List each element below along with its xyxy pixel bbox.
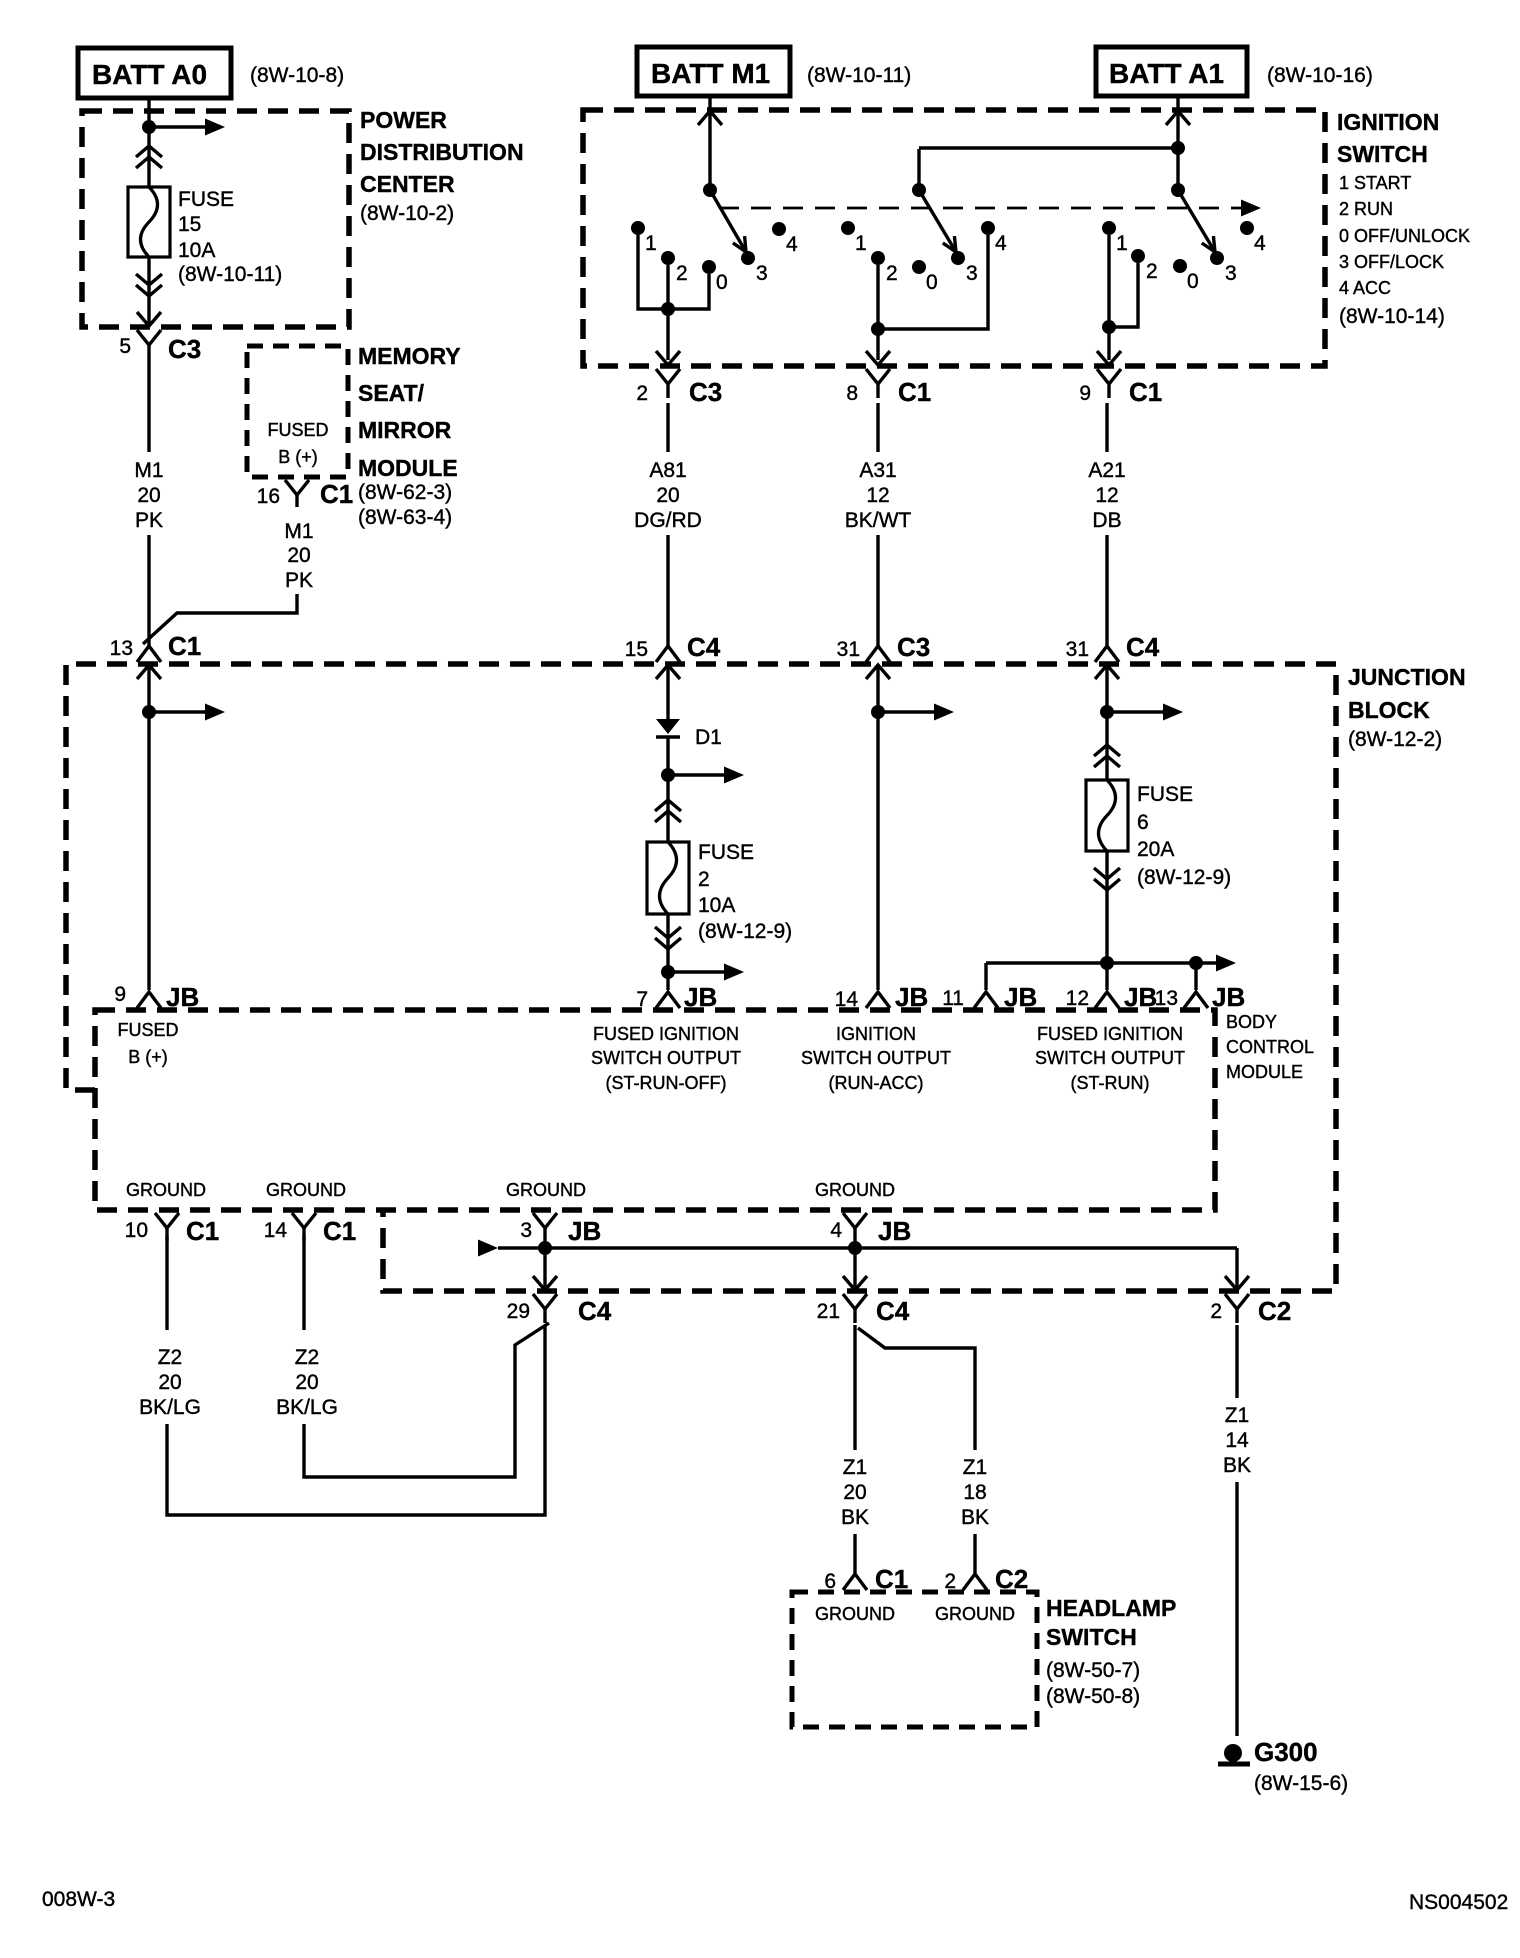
fuse 6 output marker xyxy=(1094,868,1120,890)
fuse 6 20A xyxy=(1086,780,1128,851)
bus feed arrow xyxy=(1196,955,1236,972)
connector pin 31 C4 xyxy=(1066,632,1160,662)
svg-text:FUSED IGNITION: FUSED IGNITION xyxy=(1037,1024,1183,1044)
contact 2 (switch M1) xyxy=(661,251,688,285)
svg-text:16: 16 xyxy=(257,485,280,508)
junction block box xyxy=(66,664,1336,1291)
svg-text:9: 9 xyxy=(1079,382,1091,405)
arrow into pin 8 C1 xyxy=(866,351,890,365)
arrow into pin 21 xyxy=(843,1276,867,1290)
arrow below pin 15 xyxy=(656,665,680,679)
wire pin 31 C3 to pin 14 xyxy=(876,666,879,990)
wire Z2 pin14 to pin 29 xyxy=(304,1323,549,1477)
svg-text:MODULE: MODULE xyxy=(1226,1062,1303,1082)
svg-text:GROUND: GROUND xyxy=(935,1604,1015,1624)
svg-text:A81: A81 xyxy=(649,459,686,482)
svg-text:GROUND: GROUND xyxy=(506,1180,586,1200)
wire A31 upper segment xyxy=(876,403,879,452)
svg-text:0: 0 xyxy=(926,271,938,294)
wire Z1 from pin 21 xyxy=(853,1325,856,1450)
svg-text:JB: JB xyxy=(1124,982,1157,1012)
svg-text:(ST-RUN): (ST-RUN) xyxy=(1071,1073,1150,1093)
svg-text:(8W-12-9): (8W-12-9) xyxy=(1137,866,1231,889)
svg-text:BK/LG: BK/LG xyxy=(276,1396,338,1419)
headlamp switch box xyxy=(792,1592,1037,1727)
svg-text:NS004502: NS004502 xyxy=(1409,1891,1508,1914)
svg-text:0: 0 xyxy=(1187,270,1199,293)
svg-text:C3: C3 xyxy=(897,632,930,662)
junction ground bus (pin 4) xyxy=(848,1241,862,1255)
diode D1 xyxy=(656,719,722,749)
connector pin 29 C4 xyxy=(507,1294,612,1326)
svg-text:D1: D1 xyxy=(695,726,722,749)
wire label Z1 20 BK xyxy=(841,1456,869,1529)
arrow into pin 2 C3 xyxy=(656,351,680,365)
switch wiper M1 xyxy=(710,190,746,252)
wire BATT A0 to fuse 15 xyxy=(147,98,150,187)
svg-text:8: 8 xyxy=(846,382,858,405)
wire bus down at C2 xyxy=(1235,1248,1238,1289)
svg-text:(8W-10-16): (8W-10-16) xyxy=(1267,64,1373,87)
svg-text:11: 11 xyxy=(942,987,964,1010)
svg-text:3: 3 xyxy=(520,1219,532,1242)
svg-text:DISTRIBUTION: DISTRIBUTION xyxy=(360,139,524,165)
signal label GROUND (pin 3) xyxy=(506,1180,586,1200)
svg-text:Z1: Z1 xyxy=(1225,1404,1250,1427)
svg-text:(8W-50-7): (8W-50-7) xyxy=(1046,1659,1140,1682)
svg-text:HEADLAMP: HEADLAMP xyxy=(1046,1595,1176,1621)
contact 1 (switch M1) xyxy=(631,221,657,255)
svg-text:FUSE: FUSE xyxy=(698,841,754,864)
wire contact0 to output (M1) xyxy=(668,274,709,309)
svg-text:31: 31 xyxy=(837,638,860,661)
svg-text:4: 4 xyxy=(1254,232,1266,255)
arrow into pin 9 C1 xyxy=(1097,351,1121,365)
svg-text:15: 15 xyxy=(178,213,201,236)
wire label M1 20 PK xyxy=(134,459,163,532)
signal label GROUND (headlamp C2) xyxy=(935,1604,1015,1624)
wire contact1 to output (A2) xyxy=(1107,235,1110,327)
wire pin 13 to pin 9 xyxy=(147,666,150,990)
svg-text:MIRROR: MIRROR xyxy=(358,417,452,443)
wire stub pin 11 xyxy=(984,963,987,990)
svg-text:SWITCH OUTPUT: SWITCH OUTPUT xyxy=(1035,1048,1185,1068)
contact 4 (switch A2) xyxy=(1240,221,1266,255)
arrow below pin 13 xyxy=(137,665,161,679)
wire A81 upper segment xyxy=(666,403,669,452)
svg-text:DG/RD: DG/RD xyxy=(634,509,702,532)
wire Z1 branch from pin 21 xyxy=(858,1328,975,1450)
svg-text:7: 7 xyxy=(636,988,648,1011)
connector pin 2 C2 xyxy=(1210,1294,1291,1326)
contact 1 (switch A2) xyxy=(1102,221,1128,255)
wire contact2 to output (M1) xyxy=(666,265,669,309)
svg-text:12: 12 xyxy=(1095,484,1118,507)
pole pivot A3 xyxy=(912,183,926,197)
svg-text:SWITCH OUTPUT: SWITCH OUTPUT xyxy=(801,1048,951,1068)
svg-text:C1: C1 xyxy=(168,631,201,661)
connector pin 8 C1 xyxy=(846,369,931,407)
svg-text:C1: C1 xyxy=(323,1216,356,1246)
wire node to fuse 2 xyxy=(666,775,669,842)
contact 0 (switch A2) xyxy=(1173,259,1199,293)
wire label M1 20 PK (memory branch) xyxy=(284,520,313,592)
node with feed arrow in PDC xyxy=(142,119,225,136)
svg-text:SWITCH: SWITCH xyxy=(1046,1624,1137,1650)
svg-text:BK/LG: BK/LG xyxy=(139,1396,201,1419)
svg-text:4 ACC: 4 ACC xyxy=(1339,278,1391,298)
svg-text:FUSE: FUSE xyxy=(178,188,234,211)
svg-text:10A: 10A xyxy=(698,894,735,917)
contact 4 (switch A3) xyxy=(981,221,1007,255)
node with feed arrow above pin 7 xyxy=(661,964,744,981)
connector pin 13 JB xyxy=(1155,982,1246,1012)
svg-text:(8W-62-3): (8W-62-3) xyxy=(358,481,452,504)
ignition switch label xyxy=(1337,109,1470,328)
connector pin 12 JB xyxy=(1066,982,1158,1012)
wire memory branch to pin 13 xyxy=(143,594,297,644)
svg-text:4: 4 xyxy=(830,1219,842,1242)
svg-text:BODY: BODY xyxy=(1226,1012,1277,1032)
svg-text:2: 2 xyxy=(636,382,648,405)
wire contact2 to output (A2) xyxy=(1109,263,1138,327)
svg-text:(8W-10-2): (8W-10-2) xyxy=(360,202,454,225)
signal label GROUND (headlamp C1) xyxy=(815,1604,895,1624)
contact 0 (switch A3) xyxy=(912,260,938,294)
junction ground bus (pin 3) xyxy=(538,1241,552,1255)
svg-text:2: 2 xyxy=(1210,1300,1222,1323)
fuse 2 label xyxy=(698,841,792,943)
connector pin 2 C2 (headlamp) xyxy=(944,1564,1028,1594)
svg-text:4: 4 xyxy=(995,232,1007,255)
svg-text:JB: JB xyxy=(166,982,199,1012)
svg-text:B (+): B (+) xyxy=(278,447,318,467)
wire diode to node xyxy=(666,737,669,775)
wire pin 31 C4 to fuse 6 xyxy=(1105,666,1108,780)
svg-text:6: 6 xyxy=(1137,811,1149,834)
svg-text:12: 12 xyxy=(866,484,889,507)
connector pin 7 JB xyxy=(636,982,717,1012)
fuse output marker xyxy=(136,274,162,296)
connector pin 5 C3 xyxy=(119,330,201,364)
svg-text:Z2: Z2 xyxy=(295,1346,320,1369)
contact 2 (switch A3) xyxy=(871,251,898,285)
signal label GROUND (pin 14) xyxy=(266,1180,346,1200)
svg-text:18: 18 xyxy=(963,1481,986,1504)
svg-text:15: 15 xyxy=(625,638,648,661)
arrow into pin 29 xyxy=(533,1276,557,1290)
switch wiper A2 xyxy=(1178,190,1215,252)
wire Z1 14 from pin 2 C2 xyxy=(1235,1325,1238,1398)
wire label Z2 20 BK/LG (pin 10) xyxy=(139,1346,201,1419)
svg-text:SWITCH: SWITCH xyxy=(1337,141,1428,167)
svg-text:C4: C4 xyxy=(1126,632,1160,662)
wire Z2 from pin 14 xyxy=(302,1236,305,1330)
output junction (A3) xyxy=(871,322,885,336)
arrow into pin 2 C2 xyxy=(1225,1276,1249,1290)
svg-text:(8W-63-4): (8W-63-4) xyxy=(358,506,452,529)
arrow into connector C3 xyxy=(137,312,161,326)
svg-text:FUSED IGNITION: FUSED IGNITION xyxy=(593,1024,739,1044)
svg-text:14: 14 xyxy=(835,988,859,1011)
signal label ignition switch output (RUN-ACC) xyxy=(801,1024,951,1093)
svg-text:BK: BK xyxy=(961,1506,989,1529)
connector pin 16 C1 xyxy=(257,479,354,509)
svg-text:GROUND: GROUND xyxy=(126,1180,206,1200)
battery feed box BATT A1 xyxy=(1096,47,1373,96)
svg-text:MEMORY: MEMORY xyxy=(358,343,461,369)
wire label A31 12 BK/WT xyxy=(845,459,912,532)
svg-text:GROUND: GROUND xyxy=(266,1180,346,1200)
body control module label xyxy=(1226,1012,1314,1082)
svg-text:(8W-10-14): (8W-10-14) xyxy=(1339,305,1445,328)
svg-text:(8W-12-9): (8W-12-9) xyxy=(698,920,792,943)
node with feed arrow (fused B+) xyxy=(142,704,225,721)
svg-text:(8W-15-6): (8W-15-6) xyxy=(1254,1772,1348,1795)
pole pivot M1 xyxy=(703,183,717,197)
svg-text:(8W-50-8): (8W-50-8) xyxy=(1046,1685,1140,1708)
svg-text:10A: 10A xyxy=(178,239,215,262)
switch position linkage (dashed) xyxy=(719,200,1261,217)
connector pin 14 JB xyxy=(835,982,929,1012)
svg-text:21: 21 xyxy=(817,1300,840,1323)
svg-text:DB: DB xyxy=(1092,509,1121,532)
svg-text:MODULE: MODULE xyxy=(358,455,458,481)
svg-text:20: 20 xyxy=(295,1371,318,1394)
svg-text:A31: A31 xyxy=(859,459,896,482)
svg-text:(8W-12-2): (8W-12-2) xyxy=(1348,728,1442,751)
svg-text:(8W-10-11): (8W-10-11) xyxy=(807,64,911,87)
svg-text:14: 14 xyxy=(1225,1429,1249,1452)
wire Z2 pin10 to pin 29 xyxy=(167,1325,545,1515)
bus wire to pins 11-13 xyxy=(986,961,1196,964)
wire label Z2 20 BK/LG (pin 14) xyxy=(276,1346,338,1419)
svg-text:20: 20 xyxy=(287,544,310,567)
wire output to pin 8 C1 xyxy=(876,329,879,360)
svg-text:31: 31 xyxy=(1066,638,1089,661)
svg-text:JB: JB xyxy=(684,982,717,1012)
svg-text:2: 2 xyxy=(698,868,710,891)
contact 4 (switch M1) xyxy=(772,222,798,256)
svg-text:BATT M1: BATT M1 xyxy=(651,58,770,89)
connector pin 21 C4 xyxy=(817,1294,910,1326)
svg-text:13: 13 xyxy=(110,637,133,660)
signal label fused ignition switch output (ST-RUN) xyxy=(1035,1024,1185,1093)
connector pin 15 C4 xyxy=(625,632,721,662)
svg-text:GROUND: GROUND xyxy=(815,1180,895,1200)
svg-text:C1: C1 xyxy=(320,479,353,509)
connector pin 3 JB xyxy=(520,1213,601,1248)
wire M1 lower segment xyxy=(147,535,150,648)
wire contact4 to output (A3) xyxy=(878,235,988,329)
sheet number 008W-3 xyxy=(42,1888,115,1911)
svg-text:Z1: Z1 xyxy=(963,1456,988,1479)
wire Z1 14 to ground xyxy=(1235,1482,1238,1736)
wire Z1 to pin 6 xyxy=(853,1534,856,1576)
svg-text:12: 12 xyxy=(1066,987,1089,1010)
svg-text:Z2: Z2 xyxy=(158,1346,183,1369)
svg-text:JB: JB xyxy=(878,1216,911,1246)
svg-text:1: 1 xyxy=(855,232,867,255)
node with feed arrow after D1 xyxy=(661,767,744,784)
svg-text:20A: 20A xyxy=(1137,838,1174,861)
output junction (M1) xyxy=(661,302,675,316)
svg-text:1 START: 1 START xyxy=(1339,173,1411,193)
svg-text:C1: C1 xyxy=(1129,377,1162,407)
fuse input marker xyxy=(136,146,162,168)
power distribution center label xyxy=(360,107,524,225)
wire contact2 to output (A3) xyxy=(876,265,879,329)
svg-text:20: 20 xyxy=(158,1371,181,1394)
switch wiper A3 xyxy=(919,190,956,252)
svg-text:C3: C3 xyxy=(689,377,722,407)
wire M1 upper segment xyxy=(147,359,150,452)
wire label A21 12 DB xyxy=(1088,459,1125,532)
svg-text:PK: PK xyxy=(285,569,313,592)
wire A31 lower segment xyxy=(876,535,879,648)
svg-text:20: 20 xyxy=(843,1481,866,1504)
fuse 2 output marker xyxy=(655,927,681,949)
svg-text:FUSE: FUSE xyxy=(1137,783,1193,806)
signal label FUSED B(+) xyxy=(117,1020,178,1067)
pole pivot A2 xyxy=(1171,183,1185,197)
svg-text:C1: C1 xyxy=(898,377,931,407)
svg-text:JUNCTION: JUNCTION xyxy=(1348,664,1466,690)
wire label A81 20 DG/RD xyxy=(634,459,702,532)
wire fuse 6 to bus xyxy=(1105,851,1108,963)
svg-text:(ST-RUN-OFF): (ST-RUN-OFF) xyxy=(606,1073,727,1093)
junction block label xyxy=(1348,664,1466,751)
svg-text:008W-3: 008W-3 xyxy=(42,1888,115,1911)
svg-text:(8W-10-8): (8W-10-8) xyxy=(250,64,344,87)
svg-text:M1: M1 xyxy=(134,459,163,482)
node with feed arrow (st-run) xyxy=(1100,704,1183,721)
fuse 2 10A xyxy=(647,842,689,914)
svg-text:FUSED: FUSED xyxy=(117,1020,178,1040)
wire label Z1 14 BK xyxy=(1223,1404,1251,1477)
svg-text:5: 5 xyxy=(119,335,131,358)
svg-text:13: 13 xyxy=(1155,987,1178,1010)
contact 3 (switch M1) xyxy=(741,251,768,285)
svg-text:JB: JB xyxy=(1212,982,1245,1012)
svg-text:GROUND: GROUND xyxy=(815,1604,895,1624)
svg-text:C3: C3 xyxy=(168,334,201,364)
connector pin 6 C1 xyxy=(824,1564,908,1594)
svg-text:JB: JB xyxy=(568,1216,601,1246)
svg-text:C4: C4 xyxy=(578,1296,612,1326)
drawing number NS004502 xyxy=(1409,1891,1508,1914)
svg-text:CONTROL: CONTROL xyxy=(1226,1037,1314,1057)
svg-text:BATT A0: BATT A0 xyxy=(92,59,207,90)
junction on bus (pin 13) xyxy=(1189,956,1203,970)
svg-text:2: 2 xyxy=(886,262,898,285)
wire Z2 from pin 10 xyxy=(165,1236,168,1330)
svg-text:IGNITION: IGNITION xyxy=(836,1024,916,1044)
memory seat/mirror module label xyxy=(358,343,461,529)
wire fuse 15 to pin 5 xyxy=(147,257,150,326)
svg-text:3 OFF/LOCK: 3 OFF/LOCK xyxy=(1339,252,1444,272)
svg-text:BK: BK xyxy=(1223,1454,1251,1477)
wire BATT A1 to pole pivot xyxy=(1176,96,1179,190)
contact 0 (switch M1) xyxy=(702,260,728,294)
junction on bus (pin 12) xyxy=(1100,956,1114,970)
svg-text:JB: JB xyxy=(1004,982,1037,1012)
contact 3 (switch A2) xyxy=(1210,251,1237,285)
svg-text:0: 0 xyxy=(716,271,728,294)
svg-text:C4: C4 xyxy=(876,1296,910,1326)
svg-text:C4: C4 xyxy=(687,632,721,662)
svg-text:3: 3 xyxy=(1225,262,1237,285)
svg-text:FUSED: FUSED xyxy=(267,420,328,440)
svg-text:29: 29 xyxy=(507,1300,530,1323)
memory seat/mirror module box xyxy=(247,346,348,477)
connector pin 14 C1 xyxy=(264,1213,357,1246)
wire output to pin 2 C3 xyxy=(666,309,669,360)
connector pin 31 C3 xyxy=(837,632,931,662)
connector pin 10 C1 xyxy=(125,1213,220,1246)
wire A81 lower segment xyxy=(666,535,669,648)
svg-text:1: 1 xyxy=(1116,232,1128,255)
svg-text:SWITCH OUTPUT: SWITCH OUTPUT xyxy=(591,1048,741,1068)
svg-text:1: 1 xyxy=(645,232,657,255)
contact 1 (switch A3) xyxy=(841,221,867,255)
wire contact1 to output (M1) xyxy=(638,235,668,309)
svg-text:14: 14 xyxy=(264,1219,288,1242)
svg-text:A21: A21 xyxy=(1088,459,1125,482)
svg-text:SEAT/: SEAT/ xyxy=(358,380,425,406)
svg-text:BATT A1: BATT A1 xyxy=(1109,58,1224,89)
svg-text:4: 4 xyxy=(786,233,798,256)
svg-text:BLOCK: BLOCK xyxy=(1348,697,1430,723)
svg-text:9: 9 xyxy=(114,983,126,1006)
signal label GROUND (pin 10) xyxy=(126,1180,206,1200)
fuse 6 label xyxy=(1137,783,1231,889)
wire link to pole pivot A3 xyxy=(917,149,920,190)
wire Z1 18 to pin 2 xyxy=(973,1534,976,1576)
svg-text:0 OFF/UNLOCK: 0 OFF/UNLOCK xyxy=(1339,226,1470,246)
svg-text:2: 2 xyxy=(676,262,688,285)
svg-text:IGNITION: IGNITION xyxy=(1337,109,1439,135)
arrow below pin 31 C4 xyxy=(1095,665,1119,679)
fuse 6 input marker xyxy=(1094,745,1120,767)
wire bus down at 29 xyxy=(543,1248,546,1289)
ground bus feed arrow xyxy=(478,1240,1237,1257)
wire fuse 2 to pin 7 xyxy=(666,914,669,990)
connector pin 9 JB xyxy=(114,982,199,1012)
headlamp switch label xyxy=(1046,1595,1176,1708)
svg-text:2 RUN: 2 RUN xyxy=(1339,199,1393,219)
connector pin 2 C3 xyxy=(636,369,722,407)
wire output to pin 9 C1 xyxy=(1107,327,1110,360)
fuse 15 10A xyxy=(128,187,170,257)
svg-text:BK: BK xyxy=(841,1506,869,1529)
contact 2 (switch A2) xyxy=(1131,249,1158,283)
signal label FUSED B(+) memory module xyxy=(267,420,328,467)
svg-text:CENTER: CENTER xyxy=(360,171,455,197)
svg-text:M1: M1 xyxy=(284,520,313,543)
wire stub pin 12 xyxy=(1105,963,1108,990)
fuse 2 input marker xyxy=(655,800,681,822)
wire pin 15 to diode xyxy=(666,666,669,719)
wire A21 lower segment xyxy=(1105,535,1108,648)
power distribution center box xyxy=(82,111,349,327)
signal label fused ignition switch output (ST-RUN-OFF) xyxy=(591,1024,741,1093)
svg-text:PK: PK xyxy=(135,509,163,532)
svg-text:(RUN-ACC): (RUN-ACC) xyxy=(829,1073,924,1093)
wire BATT M1 to pole pivot xyxy=(708,96,711,190)
fuse 15 label xyxy=(178,188,282,286)
contact 3 (switch A3) xyxy=(951,251,978,285)
